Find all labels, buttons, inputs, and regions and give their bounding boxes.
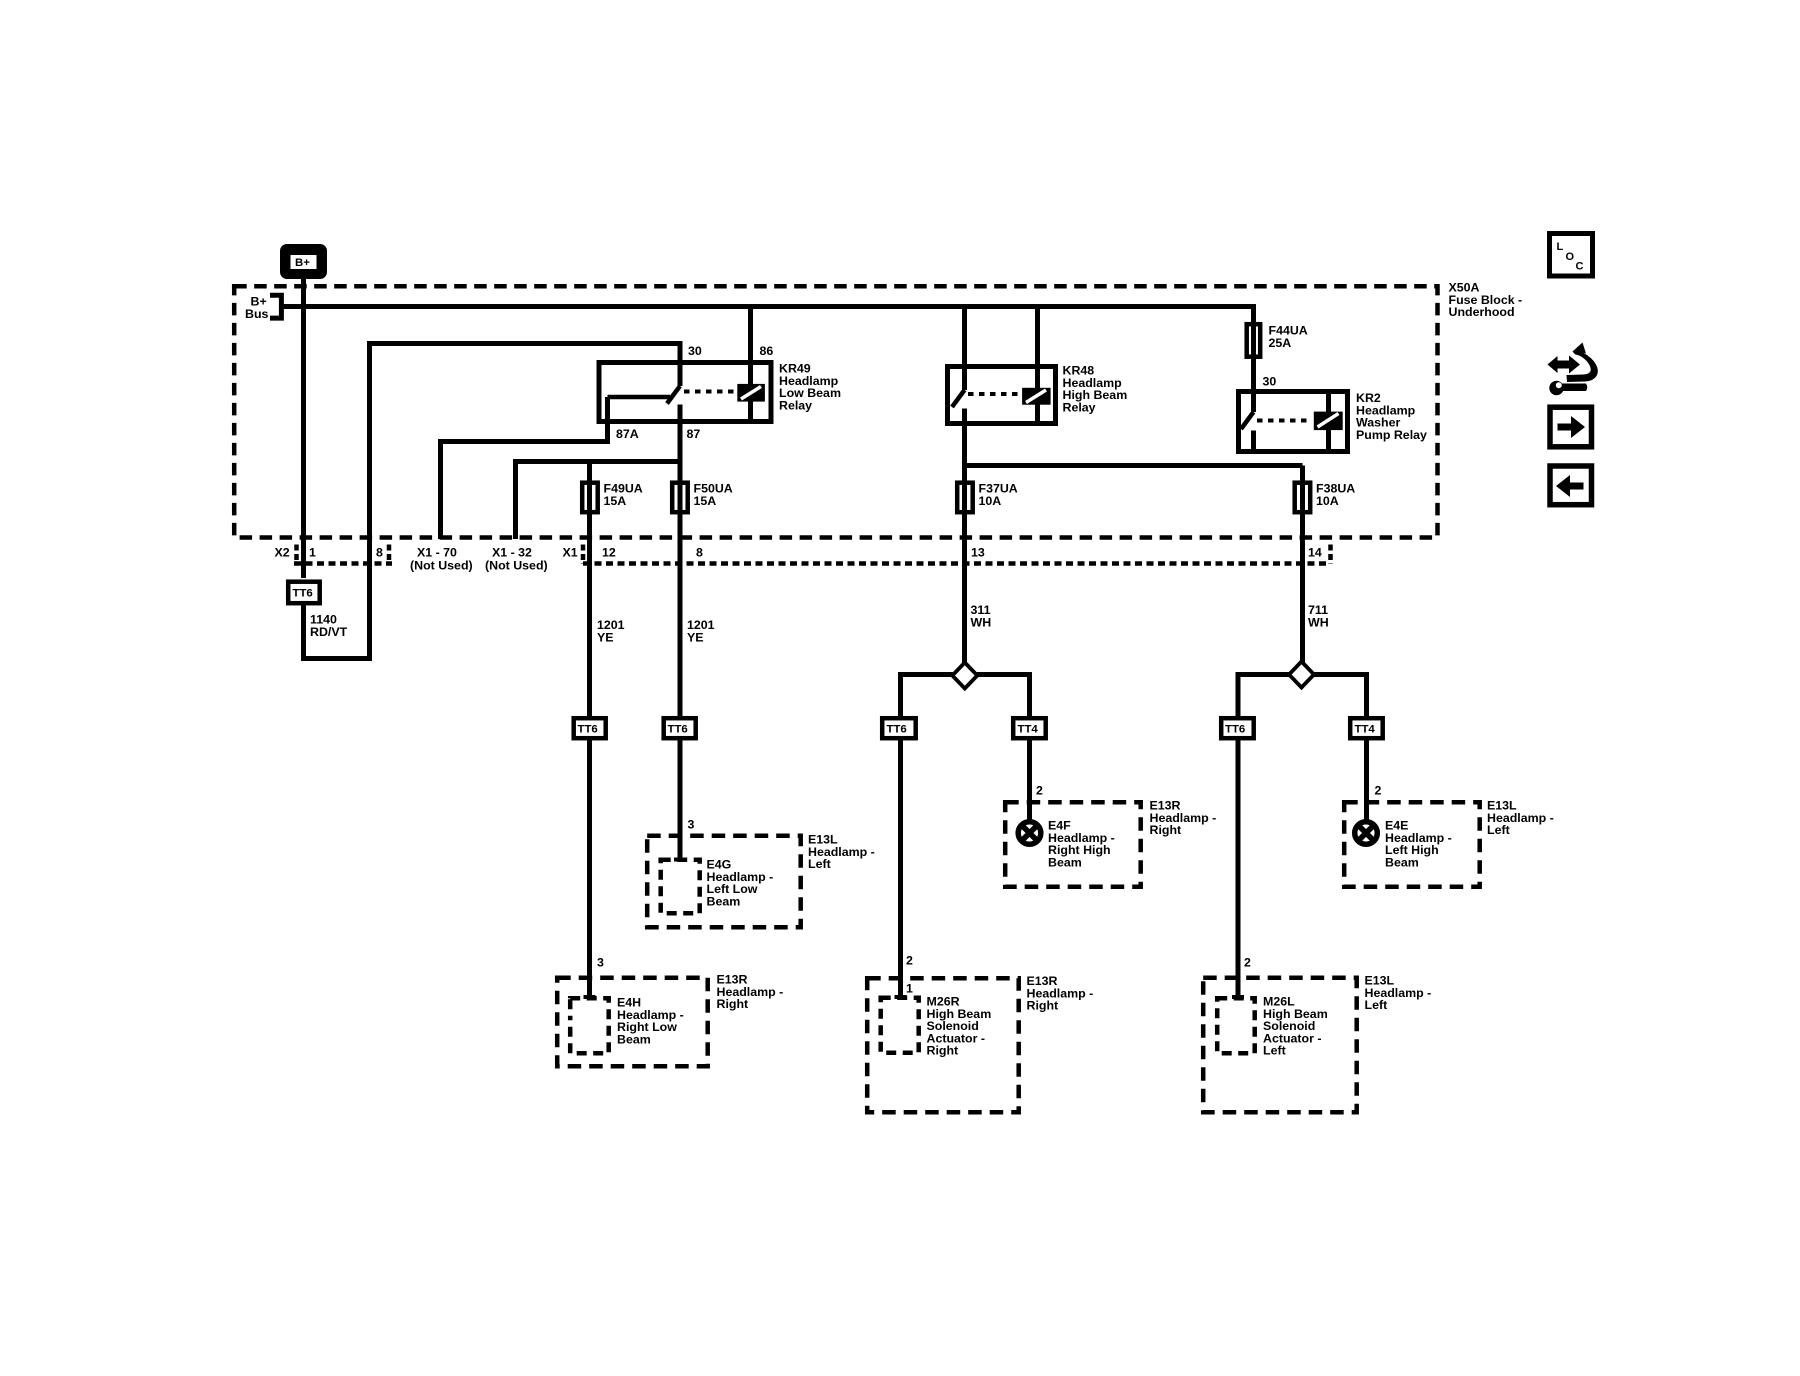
svg-text:TT6: TT6 bbox=[293, 588, 313, 600]
svg-text:86: 86 bbox=[760, 344, 774, 358]
svg-text:8: 8 bbox=[376, 545, 383, 559]
svg-text:Left: Left bbox=[1365, 998, 1388, 1012]
terminal TT6 wire8 bbox=[664, 718, 696, 738]
svg-text:B+: B+ bbox=[295, 257, 310, 269]
fuse F44UA bbox=[1247, 324, 1261, 357]
component box E13R (M26R) bbox=[867, 978, 1019, 1112]
connector X2 band bbox=[294, 561, 392, 566]
wire 311 splice branches bbox=[901, 675, 1030, 717]
relay KR48 box bbox=[948, 367, 1056, 424]
icon LOC box bbox=[1550, 234, 1593, 277]
svg-text:YE: YE bbox=[597, 630, 614, 644]
svg-text:TT4: TT4 bbox=[1018, 723, 1039, 735]
component box M26L bbox=[1217, 998, 1255, 1053]
svg-text:Bus: Bus bbox=[245, 307, 269, 321]
svg-text:87: 87 bbox=[687, 427, 701, 441]
relay KR48 switch arm bbox=[952, 390, 965, 407]
svg-text:1: 1 bbox=[309, 545, 316, 559]
svg-text:Left: Left bbox=[808, 857, 831, 871]
svg-text:Right: Right bbox=[1027, 999, 1059, 1013]
wire end T-bar E4H bbox=[584, 995, 596, 999]
svg-text:3: 3 bbox=[688, 818, 695, 832]
svg-text:2: 2 bbox=[1375, 784, 1382, 798]
terminal TT4 wire711R bbox=[1350, 718, 1383, 738]
svg-text:30: 30 bbox=[688, 344, 702, 358]
svg-text:10A: 10A bbox=[979, 494, 1002, 508]
icon arrow-right box bbox=[1550, 407, 1592, 447]
wire below TT6 to M26R bbox=[898, 740, 903, 996]
relay KR49 coil bbox=[738, 384, 765, 401]
relay KR49 box bbox=[599, 363, 771, 422]
B+ bus bracket bbox=[270, 295, 281, 318]
svg-text:TT6: TT6 bbox=[668, 723, 688, 735]
svg-text:TT4: TT4 bbox=[1355, 723, 1376, 735]
fuse block X50A dashed box bbox=[234, 286, 1437, 537]
svg-text:X1 - 32: X1 - 32 bbox=[492, 545, 532, 559]
relay KR2 box bbox=[1239, 392, 1348, 452]
icon hook pointer bbox=[1548, 343, 1598, 396]
svg-text:14: 14 bbox=[1308, 545, 1322, 559]
wire KR2 coil internal bbox=[1326, 391, 1331, 452]
wire KR49 87 down through F50UA to TT6 bbox=[678, 405, 683, 717]
svg-text:15A: 15A bbox=[694, 494, 717, 508]
svg-text:C: C bbox=[1576, 261, 1584, 273]
svg-text:TT6: TT6 bbox=[887, 723, 907, 735]
wire end T-bar M26L bbox=[1232, 995, 1244, 999]
wire KR48 output down through F37UA to splice bbox=[962, 409, 967, 664]
svg-text:12: 12 bbox=[602, 545, 616, 559]
fuse F37UA bbox=[957, 483, 973, 513]
wire below TT6 to M26L bbox=[1236, 740, 1241, 996]
terminal TT6 wire311L bbox=[882, 718, 916, 738]
component box E4H bbox=[570, 998, 609, 1053]
wire KR48 common from bus bbox=[962, 307, 967, 391]
terminal TT4 wire311R bbox=[1013, 718, 1045, 738]
svg-text:Left: Left bbox=[1263, 1044, 1286, 1058]
lamp E4F bbox=[1018, 822, 1041, 845]
wire 87 branch to F49UA and X1-32 bbox=[516, 462, 681, 540]
wire end T-bar M26R bbox=[895, 995, 907, 999]
svg-text:Relay: Relay bbox=[1063, 400, 1096, 414]
lamp E4E bbox=[1355, 822, 1378, 845]
svg-text:Pump Relay: Pump Relay bbox=[1356, 428, 1427, 442]
component box E13L (E4E) bbox=[1344, 802, 1480, 887]
fuse F49UA bbox=[582, 483, 598, 513]
component box M26R bbox=[881, 998, 919, 1053]
svg-text:30: 30 bbox=[1263, 375, 1277, 389]
svg-text:X1: X1 bbox=[563, 545, 578, 559]
component box E13R (E4F) bbox=[1005, 802, 1140, 887]
svg-text:3: 3 bbox=[597, 956, 604, 970]
svg-text:Right: Right bbox=[717, 997, 749, 1011]
terminal TT6 wire711L bbox=[1221, 718, 1254, 738]
relay KR49 contact 87A bbox=[608, 395, 671, 400]
svg-text:2: 2 bbox=[906, 954, 913, 968]
svg-text:WH: WH bbox=[1308, 615, 1329, 629]
icon arrow-left box bbox=[1550, 466, 1592, 505]
wire KR48 coil feed from bus bbox=[1035, 307, 1040, 424]
svg-text:25A: 25A bbox=[1269, 336, 1292, 350]
wire B+ drop bbox=[301, 278, 306, 578]
svg-text:X2: X2 bbox=[275, 545, 290, 559]
svg-text:13: 13 bbox=[971, 545, 985, 559]
svg-text:10A: 10A bbox=[1316, 494, 1339, 508]
relay KR48 coil bbox=[1023, 388, 1051, 404]
svg-text:X1 - 70: X1 - 70 bbox=[417, 545, 457, 559]
wire F49UA drop to TT6 bbox=[587, 462, 592, 717]
fuse F38UA bbox=[1295, 483, 1311, 513]
relay KR49 actuation dash bbox=[684, 390, 737, 394]
wire KR2 output stub bbox=[1251, 431, 1256, 452]
svg-text:Relay: Relay bbox=[779, 398, 812, 412]
battery B+ symbol bbox=[280, 244, 327, 279]
relay KR49 switch arm bbox=[667, 386, 680, 404]
wire 711 splice branches bbox=[1238, 675, 1367, 717]
svg-text:Beam: Beam bbox=[1385, 855, 1419, 869]
splice diamond 311 bbox=[952, 663, 977, 689]
component box E13L (M26L) bbox=[1203, 978, 1357, 1112]
wire below TT4 to E4E bbox=[1364, 740, 1369, 820]
svg-text:L: L bbox=[1557, 241, 1564, 253]
svg-text:15A: 15A bbox=[604, 494, 627, 508]
component box E13L (E4G) bbox=[647, 836, 801, 928]
svg-text:Beam: Beam bbox=[1048, 855, 1082, 869]
svg-text:(Not Used): (Not Used) bbox=[410, 558, 473, 572]
relay KR2 actuation dash bbox=[1257, 419, 1312, 423]
svg-text:8: 8 bbox=[696, 545, 703, 559]
svg-text:87A: 87A bbox=[616, 427, 639, 441]
wire 1201 YE right below TT6 to E4G bbox=[678, 740, 683, 858]
wire 711 feed through F38UA to splice bbox=[1300, 466, 1305, 664]
wire B+ bus bbox=[281, 307, 1254, 413]
svg-text:(Not Used): (Not Used) bbox=[485, 558, 548, 572]
svg-text:Left: Left bbox=[1487, 823, 1510, 837]
svg-text:TT6: TT6 bbox=[1225, 723, 1245, 735]
wire junction to F38UA bbox=[965, 463, 1303, 468]
terminal TT6 wire12 bbox=[574, 718, 606, 738]
wire 1140 RD/VT loop to KR49 pin30 bbox=[304, 344, 681, 659]
svg-text:WH: WH bbox=[971, 615, 992, 629]
component box E4G bbox=[661, 860, 700, 914]
wire KR49 pin 86 coil feed bbox=[748, 307, 753, 421]
wire KR49 87A to X1-70 bbox=[441, 397, 608, 539]
fuse F50UA bbox=[672, 483, 688, 513]
svg-text:YE: YE bbox=[687, 630, 704, 644]
svg-text:2: 2 bbox=[1244, 956, 1251, 970]
component box E13R (E4H) bbox=[557, 978, 708, 1066]
terminal TT6 under B+ bbox=[288, 582, 320, 604]
svg-text:2: 2 bbox=[1036, 784, 1043, 798]
svg-text:Beam: Beam bbox=[617, 1032, 651, 1046]
relay KR2 switch arm bbox=[1241, 412, 1254, 429]
svg-text:TT6: TT6 bbox=[578, 723, 598, 735]
svg-text:Beam: Beam bbox=[707, 894, 741, 908]
wire 1201 YE left below TT6 to E4H bbox=[587, 740, 592, 996]
svg-text:O: O bbox=[1566, 251, 1575, 263]
connector X1 band bbox=[583, 561, 1331, 566]
splice diamond 711 bbox=[1289, 662, 1314, 688]
svg-text:Right: Right bbox=[927, 1044, 959, 1058]
relay KR48 actuation dash bbox=[968, 392, 1022, 396]
svg-text:RD/VT: RD/VT bbox=[310, 625, 348, 639]
svg-text:Underhood: Underhood bbox=[1449, 305, 1515, 319]
svg-text:Right: Right bbox=[1150, 823, 1182, 837]
wire end T-bar E4G bbox=[674, 858, 686, 862]
wire below TT4 to E4F bbox=[1027, 740, 1032, 820]
relay KR2 coil bbox=[1314, 412, 1342, 430]
svg-text:1: 1 bbox=[906, 982, 913, 996]
